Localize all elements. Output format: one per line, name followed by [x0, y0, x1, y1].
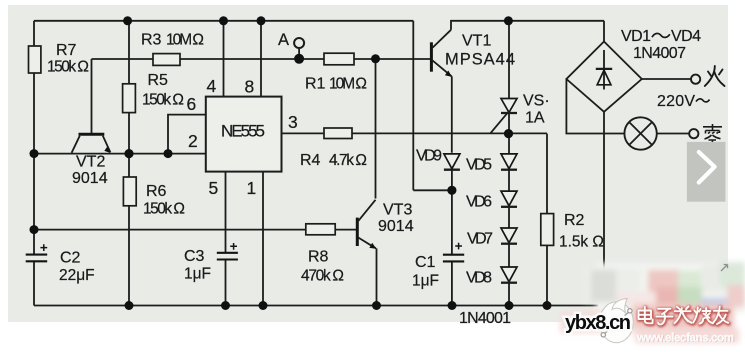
resistor R5 body	[123, 84, 136, 113]
svg-text:R4: R4	[300, 152, 321, 169]
glyph shao	[693, 307, 713, 323]
wire C1 column	[451, 190, 453, 305]
thyristor VS triangle	[501, 99, 517, 113]
brand glyphs white core	[639, 306, 729, 324]
svg-text:VT3: VT3	[383, 202, 412, 219]
node gnd-VD8	[505, 301, 514, 310]
ybx8 logo white ball	[600, 299, 634, 343]
svg-text:R5: R5	[148, 72, 169, 89]
wire pin 1 column	[262, 172, 264, 306]
node top-R5	[123, 16, 132, 25]
terminal (live)	[691, 75, 700, 84]
wire VD9 to node	[451, 170, 453, 190]
wire bottom rail (ground)	[34, 305, 598, 307]
svg-text:VD1: VD1	[621, 28, 651, 45]
lamp EL	[624, 117, 656, 149]
wire pin 4	[223, 21, 225, 97]
bridge rectifier VD1-VD4 diamond	[566, 42, 641, 112]
svg-text:VD9: VD9	[416, 148, 442, 165]
terminal (neutral)	[689, 129, 698, 138]
bridge inner diode	[603, 50, 605, 90]
svg-text:VD4: VD4	[671, 28, 701, 45]
brand glyphs (dian zi fa shao you) red rim	[639, 307, 729, 325]
node left rail - base row	[30, 225, 39, 234]
resistor R8 body	[306, 224, 335, 235]
wire bridge top column	[603, 21, 605, 42]
wire VCC to VD9 cathode node	[413, 189, 452, 191]
capacitor C3	[217, 253, 238, 260]
svg-text:9014: 9014	[378, 218, 414, 235]
glyph fa	[675, 307, 692, 324]
svg-text:4.7k Ω: 4.7k Ω	[329, 152, 367, 169]
wire bridge bottom column	[603, 112, 605, 284]
svg-text:NE555: NE555	[221, 122, 265, 141]
wire bridge left to lamp	[566, 79, 624, 134]
wire VT2 base	[91, 59, 93, 133]
svg-text:8: 8	[245, 77, 255, 97]
wire pin 3 row y133.4	[282, 132, 548, 134]
glyph dian	[639, 308, 653, 325]
wire node row y59 (R3/R1 row)	[92, 58, 432, 60]
resistor R1 body	[324, 53, 354, 65]
svg-text:220V: 220V	[657, 93, 695, 110]
node gnd-VT3	[372, 301, 381, 310]
svg-text:R7: R7	[56, 42, 77, 59]
wire R5/R6 column	[128, 21, 130, 306]
wire VS cathode + gate	[490, 110, 509, 133]
node gnd-pin1	[259, 301, 268, 310]
node top-pin4	[219, 16, 228, 25]
svg-text:1: 1	[247, 178, 257, 198]
wire R2 column	[546, 134, 548, 306]
wire bridge right to live terminal	[642, 78, 691, 80]
node X (R1 right)	[371, 54, 380, 63]
svg-text:VT2: VT2	[76, 154, 105, 171]
node VT1 rail - VS anode	[504, 16, 513, 25]
svg-text:R8: R8	[308, 249, 329, 266]
wire VT3 emitter column	[376, 248, 378, 305]
svg-text:150k Ω: 150k Ω	[143, 201, 185, 218]
svg-text:22μF: 22μF	[59, 267, 95, 284]
node gnd-R2	[543, 301, 552, 310]
node VS cathode	[504, 129, 513, 138]
node pin6 loop - pin2 row	[164, 149, 173, 158]
svg-text:4: 4	[207, 76, 217, 96]
svg-text:ybx8.cn: ybx8.cn	[565, 312, 631, 334]
svg-text:10M Ω: 10M Ω	[329, 76, 367, 93]
glyph fa	[675, 306, 692, 323]
wire VS anode	[508, 21, 510, 99]
node gnd-C3	[221, 301, 230, 310]
svg-text:1μF: 1μF	[184, 266, 211, 283]
glyph "zero" neutral terminal	[703, 124, 722, 144]
wire VCC drop right	[412, 21, 414, 191]
wire top rail (VCC net)	[34, 20, 413, 22]
diode VD6	[501, 191, 517, 206]
pastel watermark mosaic	[560, 262, 745, 343]
wire node X column	[375, 59, 377, 199]
svg-text:VD6: VD6	[466, 194, 492, 211]
svg-text:VD5: VD5	[466, 157, 492, 174]
svg-text:150k Ω: 150k Ω	[142, 92, 184, 109]
wire VD5-VD8 chain column	[508, 134, 510, 306]
svg-text:2: 2	[188, 131, 198, 151]
node top-pin8	[257, 16, 266, 25]
svg-text:1μF: 1μF	[412, 273, 439, 290]
svg-text:9014: 9014	[72, 170, 108, 187]
transistor VT1 (MPSA44)	[430, 42, 433, 71]
node gnd-R6	[125, 301, 134, 310]
node gnd-C1	[448, 301, 457, 310]
node R5/R6 - pin2 row	[124, 149, 133, 158]
wire base row y229.6 (R8 row)	[34, 229, 357, 231]
resistor R6 body	[123, 177, 136, 206]
wire VT1 emitter column	[451, 76, 453, 153]
svg-text:VT1: VT1	[462, 33, 491, 50]
glyph zi	[657, 310, 673, 326]
svg-text:VD7: VD7	[467, 231, 493, 248]
svg-text:C2: C2	[60, 250, 81, 267]
transistor VT3 (9014)	[356, 218, 359, 246]
node A terminal circle	[294, 38, 304, 48]
svg-text:MPSA44: MPSA44	[445, 51, 515, 69]
svg-text:470k Ω: 470k Ω	[301, 268, 344, 285]
svg-text:6: 6	[187, 94, 197, 114]
svg-text:www.elecfans.com: www.elecfans.com	[636, 332, 734, 344]
resistor R2 body	[541, 214, 554, 246]
svg-text:3: 3	[288, 112, 298, 132]
diode VD9	[444, 154, 460, 169]
svg-text:R1: R1	[305, 76, 326, 93]
svg-text:1.5k Ω: 1.5k Ω	[559, 234, 604, 251]
glyph dian	[639, 307, 653, 324]
svg-text:R3: R3	[141, 32, 162, 49]
svg-text:1N4007: 1N4007	[633, 45, 686, 62]
wire lamp to neutral terminal	[657, 133, 690, 135]
svg-text:1N4001: 1N4001	[459, 310, 511, 327]
resistor R7 body	[29, 46, 41, 73]
svg-text:5: 5	[209, 178, 219, 198]
capacitor C1	[443, 255, 464, 262]
wire pin 2 row	[34, 153, 206, 155]
transistor VT2 (9014)	[79, 133, 105, 136]
capacitor C2	[26, 255, 48, 262]
node A junction	[294, 54, 304, 64]
diode VD7	[501, 228, 517, 243]
resistor R3 body	[153, 54, 180, 66]
diode VD8	[501, 267, 517, 282]
diode VD5	[501, 154, 517, 169]
svg-text:1A: 1A	[525, 110, 545, 127]
IC U1 NE555 box	[206, 97, 282, 172]
glyph "fire" live terminal	[705, 66, 725, 86]
svg-text:R2: R2	[564, 212, 585, 229]
svg-text:VS·: VS·	[523, 93, 550, 110]
wire pin 5 / C3 column	[225, 172, 227, 306]
svg-text:A: A	[278, 31, 289, 49]
node left rail - pin2 row	[30, 149, 39, 158]
svg-text:R6: R6	[146, 183, 167, 200]
node VD9 cathode / VCC	[447, 186, 456, 195]
svg-text:C1: C1	[415, 254, 436, 271]
svg-text:10M Ω: 10M Ω	[166, 32, 204, 49]
glyph zi	[657, 309, 673, 325]
wire pin 6 loop	[168, 115, 206, 154]
wire pin 8	[260, 21, 262, 97]
gray nav chevron panel	[687, 142, 726, 202]
glyph you	[713, 307, 729, 324]
tiny cursor mark	[721, 265, 728, 272]
svg-text:VD8: VD8	[466, 270, 492, 287]
wire VT1 collector to right rail	[451, 21, 604, 30]
glyph shao	[694, 308, 714, 324]
resistor R4 body	[324, 128, 352, 139]
svg-text:C3: C3	[184, 248, 205, 265]
glyph you	[713, 307, 729, 324]
wire left rail	[33, 21, 35, 306]
svg-text:150k Ω: 150k Ω	[47, 59, 89, 76]
